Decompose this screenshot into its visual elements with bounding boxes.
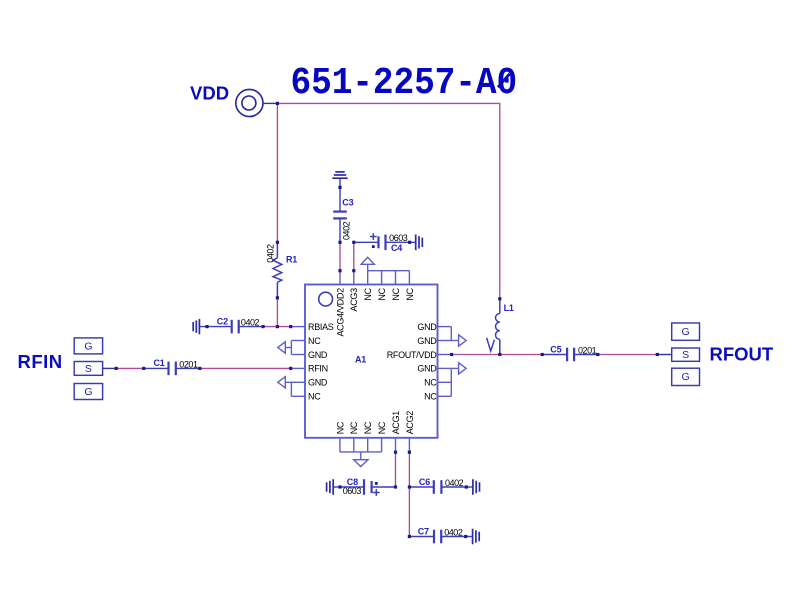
svg-text:RBIAS: RBIAS — [308, 322, 334, 332]
plus mark C4 — [370, 233, 377, 240]
svg-text:0402: 0402 — [444, 528, 463, 538]
wire ACG3 to C4 — [353, 242, 355, 270]
svg-text:RFOUT: RFOUT — [710, 344, 774, 365]
svg-text:GND: GND — [417, 364, 437, 374]
svg-text:RFOUT/VDD: RFOUT/VDD — [387, 350, 438, 360]
svg-text:ACG1: ACG1 — [391, 411, 401, 435]
wire R1 bottom to RBIAS net — [276, 298, 278, 327]
ground at C3 — [332, 172, 347, 178]
resistor R1 — [273, 242, 282, 297]
svg-text:S: S — [85, 363, 92, 375]
svg-text:RFIN: RFIN — [308, 364, 328, 374]
svg-text:C5: C5 — [550, 344, 561, 354]
svg-text:0402: 0402 — [241, 318, 260, 328]
svg-text:A1: A1 — [355, 355, 366, 365]
IC left pin leads — [291, 327, 305, 397]
capacitor C8 (polarized) — [333, 479, 395, 495]
svg-text:C1: C1 — [154, 358, 165, 368]
title 651-2257-A0 — [291, 61, 518, 104]
bracket NC/GND left upper with triangle — [278, 341, 292, 355]
ground at C6 — [473, 479, 480, 495]
svg-text:NC: NC — [424, 378, 437, 388]
checkmark mark at L1 — [487, 338, 495, 351]
capacitor C3 (vertical) — [333, 178, 347, 242]
svg-text:0603: 0603 — [343, 486, 362, 496]
svg-text:C6: C6 — [419, 477, 430, 487]
wire VDD net: top rail to L1 and down to R1 — [277, 103, 499, 298]
svg-text:ACG2: ACG2 — [405, 411, 415, 435]
bus top NC pins with up triangle — [361, 257, 409, 270]
bracket GND/NC/NC right lower with triangle — [451, 363, 466, 397]
capacitor C4 (polarized) — [354, 235, 416, 251]
svg-text:GND: GND — [417, 322, 437, 332]
IC right pin names — [387, 322, 438, 402]
wire RFIN net — [116, 367, 291, 369]
ground at C4 — [416, 235, 423, 251]
IC left pin names — [308, 322, 334, 402]
bracket GND/GND right upper with triangle — [451, 327, 466, 347]
connector VDD (double circle) — [236, 89, 278, 116]
svg-text:NC: NC — [405, 287, 415, 300]
wire ACG1 to C8 — [395, 452, 397, 487]
svg-text:NC: NC — [424, 392, 437, 402]
svg-text:G: G — [682, 326, 690, 338]
svg-text:651-2257-A0: 651-2257-A0 — [291, 61, 518, 104]
ground at C2 — [193, 319, 199, 334]
svg-text:C7: C7 — [418, 526, 429, 536]
svg-text:GND: GND — [417, 336, 437, 346]
inductor L1 — [495, 299, 499, 355]
ground at C8 — [327, 479, 334, 495]
svg-text:R1: R1 — [286, 255, 297, 265]
capacitor C2 — [199, 320, 263, 334]
svg-text:G: G — [84, 386, 92, 398]
bracket GND/NC left lower with triangle — [278, 377, 292, 397]
IC bottom pin names (rotated) — [335, 411, 415, 435]
svg-text:NC: NC — [363, 421, 373, 434]
svg-text:NC: NC — [308, 392, 321, 402]
svg-text:S: S — [682, 349, 689, 361]
svg-text:0402: 0402 — [445, 478, 464, 488]
svg-text:NC: NC — [391, 287, 401, 300]
svg-text:C3: C3 — [342, 198, 353, 208]
IC A1 body — [305, 285, 438, 438]
plus mark C8 — [375, 482, 378, 485]
svg-text:NC: NC — [308, 336, 321, 346]
svg-text:GND: GND — [308, 350, 328, 360]
capacitor C6 — [409, 480, 473, 494]
svg-text:NC: NC — [335, 421, 345, 434]
svg-text:C4: C4 — [391, 243, 402, 253]
svg-text:GND: GND — [308, 378, 328, 388]
svg-text:NC: NC — [377, 287, 387, 300]
wire RFOUT/VDD net — [452, 354, 658, 356]
svg-text:0603: 0603 — [389, 233, 408, 243]
wire ACG4/VDD2 to C3 — [339, 242, 341, 270]
svg-text:G: G — [682, 371, 690, 383]
ground at C7 — [473, 529, 480, 545]
svg-text:ACG3: ACG3 — [349, 288, 359, 312]
svg-text:0201: 0201 — [179, 360, 198, 370]
svg-text:RFIN: RFIN — [18, 351, 63, 372]
svg-text:C2: C2 — [217, 316, 228, 326]
IC bottom pin leads — [340, 438, 410, 452]
capacitor C5 — [542, 348, 598, 362]
connector RFIN G/S/G — [74, 338, 116, 400]
svg-text:0201: 0201 — [578, 346, 597, 356]
bus bottom NC pins with down triangle — [340, 452, 382, 467]
svg-text:VDD: VDD — [190, 82, 229, 103]
wire ACG2 to C6 and C7 — [408, 452, 410, 536]
svg-text:ACG4/VDD2: ACG4/VDD2 — [335, 288, 345, 337]
capacitor C1 — [144, 362, 200, 376]
svg-text:0402: 0402 — [266, 244, 276, 263]
svg-text:NC: NC — [363, 287, 373, 300]
capacitor C7 — [409, 530, 472, 544]
IC top pin leads — [340, 271, 409, 285]
svg-text:G: G — [84, 340, 92, 352]
wire RBIAS net — [263, 326, 291, 328]
svg-text:0402: 0402 — [341, 221, 351, 240]
IC right pin leads — [438, 327, 452, 397]
connector RFOUT G/S/G — [657, 323, 699, 386]
svg-text:NC: NC — [377, 421, 387, 434]
IC top pin names (rotated) — [335, 287, 414, 336]
svg-text:NC: NC — [349, 421, 359, 434]
svg-text:L1: L1 — [504, 303, 514, 313]
